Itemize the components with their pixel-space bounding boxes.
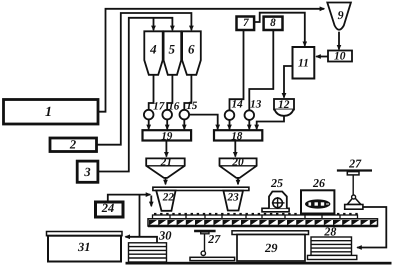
box 2	[50, 138, 97, 152]
wire cone9 to box 10	[338, 32, 340, 50]
svg-text:16: 16	[168, 100, 180, 112]
hopper 21	[146, 158, 185, 178]
wire silo6 outlet to valve 15	[184, 75, 191, 111]
svg-text:27: 27	[348, 157, 362, 171]
wire riser down to return line	[139, 195, 141, 237]
wire box18 to hopper 20	[234, 141, 236, 157]
svg-text:29: 29	[264, 241, 278, 255]
jack 27 (bottom)	[190, 231, 235, 261]
silo 4	[144, 31, 162, 75]
svg-text:31: 31	[77, 240, 91, 254]
svg-text:26: 26	[312, 176, 325, 190]
svg-text:28: 28	[323, 225, 336, 239]
svg-text:8: 8	[270, 17, 276, 29]
box 19	[143, 130, 192, 140]
mould 23	[223, 191, 243, 211]
silo 6	[182, 31, 201, 75]
wire valve16 to box 19	[166, 119, 168, 129]
box 11	[293, 47, 315, 79]
wire stack30 to box 31	[125, 237, 157, 243]
wire box10 to box 11	[316, 56, 328, 58]
svg-text:7: 7	[243, 17, 249, 29]
box 1	[4, 100, 99, 125]
wire feeder12 to box 18	[257, 116, 284, 130]
pallet row with nubs	[153, 215, 358, 219]
wire valve15 to box 19	[183, 119, 185, 129]
wire valve17 to box 19	[148, 119, 150, 129]
wire box24 up and right with arrow	[108, 195, 151, 202]
platform bar	[153, 187, 249, 190]
silo 5	[164, 31, 182, 75]
conveyor hatched band	[148, 219, 378, 226]
wire valve13 to box 18	[248, 119, 250, 129]
vibrator 25	[262, 192, 289, 212]
bunker 31	[47, 232, 123, 262]
wire box7 to box 11	[254, 13, 305, 46]
valve 14	[225, 110, 235, 120]
ground line	[126, 262, 392, 265]
svg-text:22: 22	[162, 192, 175, 204]
valve 15	[180, 110, 190, 120]
svg-text:14: 14	[232, 99, 244, 111]
svg-text:30: 30	[158, 229, 172, 243]
arrow hopper21 spout down	[165, 178, 167, 184]
svg-text:1: 1	[45, 105, 52, 120]
wire valve15 right to box 18	[189, 115, 218, 130]
svg-text:20: 20	[231, 157, 244, 169]
box 24	[96, 202, 124, 217]
svg-text:6: 6	[188, 42, 195, 57]
svg-text:5: 5	[169, 42, 176, 57]
svg-text:17: 17	[153, 101, 165, 113]
wire press27 to stack 28	[357, 207, 386, 248]
wire box19 to hopper 21	[165, 141, 167, 157]
arrow hopper20 spout down	[237, 178, 239, 184]
svg-text:23: 23	[227, 191, 240, 203]
wire silo4 outlet to valve 17	[149, 75, 154, 111]
svg-text:15: 15	[186, 100, 198, 112]
valve 16	[162, 110, 172, 120]
svg-text:10: 10	[334, 51, 346, 63]
box 8	[264, 17, 283, 30]
box 18	[214, 130, 262, 140]
chamber 29	[232, 231, 309, 261]
wire box3 up and over to silo 5	[98, 18, 172, 172]
stack 28	[308, 237, 357, 260]
svg-text:18: 18	[231, 131, 243, 143]
svg-text:2: 2	[69, 138, 76, 152]
svg-text:24: 24	[101, 201, 115, 215]
wire box7 down to valve 14	[230, 30, 244, 111]
svg-text:19: 19	[161, 131, 173, 143]
box 10	[328, 51, 352, 62]
svg-text:27: 27	[207, 232, 221, 246]
mould 22	[156, 191, 175, 211]
svg-text:13: 13	[250, 99, 262, 111]
cone 9	[327, 3, 351, 30]
stack 30	[129, 243, 167, 262]
svg-text:21: 21	[160, 156, 173, 168]
wire valve14 to box 18	[229, 119, 231, 129]
svg-text:3: 3	[83, 165, 90, 179]
press 27 (top right)	[337, 171, 372, 210]
valve 17	[144, 110, 154, 120]
svg-text:25: 25	[270, 176, 283, 190]
wire branch to silo 4	[153, 18, 155, 30]
wire box1 to top line with arrow into cone 9	[98, 9, 324, 112]
valve 13	[245, 110, 255, 120]
svg-text:9: 9	[338, 8, 344, 22]
screw feeder 26	[301, 190, 334, 213]
arrow down at platform left	[150, 196, 152, 207]
box 3	[77, 161, 98, 182]
hopper 20	[220, 158, 257, 178]
feeder 12	[274, 99, 294, 110]
wire box11 to feeder 12	[284, 66, 293, 98]
svg-text:12: 12	[278, 99, 290, 111]
svg-text:4: 4	[149, 42, 157, 57]
box 7	[237, 17, 255, 31]
wire box2 up and over to silo 6	[97, 13, 192, 145]
wire box8 down to valve 13	[249, 30, 273, 111]
wire silo5 outlet to valve 16	[167, 75, 172, 111]
svg-text:11: 11	[298, 57, 309, 69]
